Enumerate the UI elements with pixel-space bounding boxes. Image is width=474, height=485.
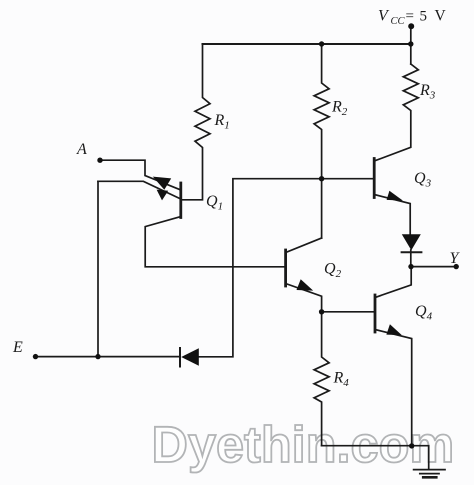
svg-text:Q4: Q4 xyxy=(415,303,433,323)
svg-text:CC: CC xyxy=(391,16,406,27)
svg-text:Q2: Q2 xyxy=(324,261,342,281)
svg-text:Y: Y xyxy=(450,250,461,267)
svg-text:Q1: Q1 xyxy=(206,193,223,213)
svg-text:V: V xyxy=(378,8,390,25)
svg-text:A: A xyxy=(76,141,87,158)
svg-text:R4: R4 xyxy=(333,370,350,390)
svg-text:R3: R3 xyxy=(419,82,436,102)
svg-text:=: = xyxy=(406,9,414,25)
svg-text:Q3: Q3 xyxy=(414,170,432,190)
svg-text:5: 5 xyxy=(420,9,428,25)
svg-text:Dyethin.com: Dyethin.com xyxy=(152,416,455,473)
svg-text:E: E xyxy=(12,339,23,356)
svg-text:R1: R1 xyxy=(214,112,230,132)
svg-text:V: V xyxy=(435,8,447,25)
svg-text:R2: R2 xyxy=(331,99,348,119)
